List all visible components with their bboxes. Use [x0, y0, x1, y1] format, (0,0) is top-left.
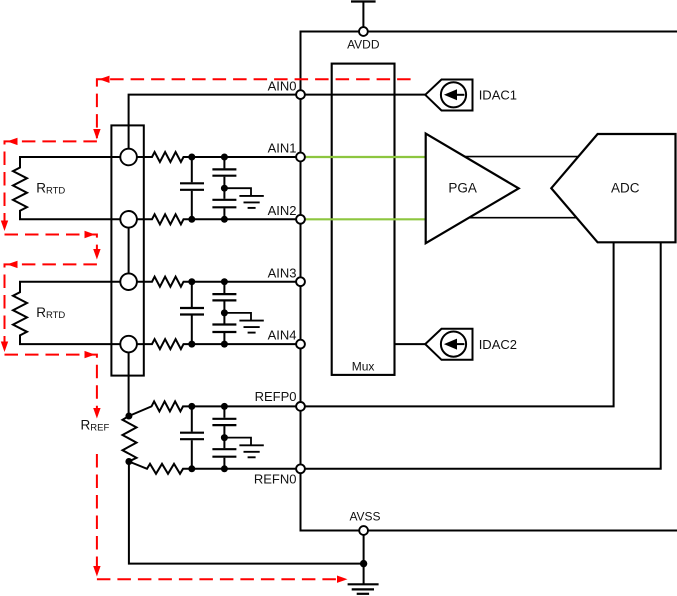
node AIN4-C6: [221, 341, 228, 348]
svg-text:IDAC1: IDAC1: [479, 88, 517, 103]
op-amp PGA U3: [426, 134, 519, 244]
wire red path: out of RTD2 toward R_REF: [5, 355, 97, 415]
supply rail bar AVDD: [351, 0, 376, 2]
node AIN2-C3: [221, 216, 228, 223]
svg-text:PGA: PGA: [448, 180, 477, 195]
capacitor C3 AIN2 to GND: [223, 188, 225, 199]
ADC core block U4: [551, 134, 675, 242]
wire red path: into RTD1: [5, 141, 97, 227]
pin AVDD: [359, 27, 368, 36]
chip pin circles: [296, 27, 368, 535]
wire green signal AIN1 to PGA: [305, 156, 426, 158]
current source IDAC1: [425, 80, 472, 111]
wire AVDD supply stem: [362, 2, 364, 28]
wire red path: IDAC1 out of AIN0 to connector: [97, 79, 411, 138]
wire AIN2 row with series filter resistor: [137, 214, 297, 224]
wire red path: through R_REF to ground: [96, 454, 98, 576]
pin AIN2: [296, 215, 305, 224]
capacitor C6 AIN4 to GND: [223, 313, 225, 324]
arrow right (out of RTD2): [85, 351, 96, 358]
capacitor group AIN1/AIN2 filter: [180, 157, 264, 219]
terminal 2: [120, 211, 137, 228]
node C8-C9 midpoint: [221, 434, 228, 441]
svg-text:AIN1: AIN1: [268, 141, 297, 156]
terminal 3: [120, 273, 137, 290]
wire REFP0 row with series filter resistor: [129, 401, 297, 416]
svg-text:AIN2: AIN2: [268, 203, 297, 218]
node REFN0-C7: [188, 465, 195, 472]
svg-text:Mux: Mux: [352, 359, 375, 373]
capacitor C9 REFN0 to GND: [223, 438, 225, 449]
connector terminal circles: [120, 149, 137, 353]
capacitor C1 differential AIN1-AIN2: [191, 157, 193, 182]
capacitor C4 differential AIN3-AIN4: [191, 282, 193, 307]
arrow down (bottom corner): [93, 566, 100, 577]
node AIN4-C4: [188, 341, 195, 348]
wire red path: into RTD2: [5, 264, 97, 350]
pin AIN0: [296, 90, 305, 99]
connector J1 terminal block: [111, 125, 143, 375]
svg-text:REFP0: REFP0: [255, 389, 297, 404]
wire red path: final leg to AVSS ground: [97, 578, 344, 580]
wire connector terminal4 to R_REF: [128, 352, 130, 416]
red dashed IDAC current path: [5, 79, 411, 579]
node REFN0-C9: [221, 465, 228, 472]
svg-text:AIN3: AIN3: [268, 265, 297, 280]
arrow left (into RTD1): [7, 138, 18, 145]
node AIN1-C2: [221, 154, 228, 161]
node C2-C3 midpoint: [221, 185, 228, 192]
wire AIN1 row with series filter resistor: [137, 152, 297, 162]
node AIN3-C5: [221, 278, 228, 285]
current source IDAC2: [425, 329, 472, 360]
chip boundary (ADC device outline): [301, 32, 677, 531]
wire red path: out of RTD1 into link: [5, 235, 97, 256]
pin AIN4: [296, 340, 305, 349]
node C5-C6 midpoint: [221, 309, 228, 316]
svg-text:AVSS: AVSS: [349, 510, 380, 524]
svg-text:RRTD: RRTD: [36, 305, 65, 321]
arrow down (into R_REF): [93, 408, 100, 419]
svg-text:AIN0: AIN0: [268, 78, 297, 93]
node R_REF bottom: [125, 458, 132, 465]
ground (filter group 3): [224, 438, 251, 445]
arrow down (at connector entry): [93, 129, 100, 140]
wire REFN0 to ADC: [301, 243, 661, 469]
node AIN3-C4: [188, 278, 195, 285]
arrow down (through RTD1): [1, 221, 8, 232]
ground (AVSS earth symbol): [348, 584, 379, 594]
resistor R_REF (reference resistor): [123, 416, 137, 462]
wire PGA output to ADC (upper): [455, 156, 582, 158]
capacitor C8 REFP0 to GND: [223, 406, 225, 417]
svg-text:ADC: ADC: [611, 180, 640, 195]
pin REFP0: [296, 402, 305, 411]
node R_REF top: [125, 413, 132, 420]
wire AIN4 row with series filter resistor: [137, 339, 297, 349]
svg-text:REFN0: REFN0: [254, 471, 297, 486]
node AVSS ground junction: [360, 560, 367, 567]
capacitor group AIN3/AIN4 filter: [180, 282, 264, 344]
capacitor group REFP0/REFN0 filter: [180, 406, 264, 468]
wire PGA output to ADC (lower): [458, 217, 582, 219]
wire IDAC2 to mux: [395, 343, 426, 345]
wire AIN0 net (AIN0 pin to IDAC1 and to connector pin 1): [129, 95, 426, 149]
arrow left (into RTD2): [7, 261, 18, 268]
wire REFN0 row with series filter resistor: [129, 462, 297, 474]
terminal 4: [120, 336, 137, 353]
pin AIN3: [296, 277, 305, 286]
wire green signal AIN2 to PGA: [305, 218, 426, 220]
resistor R_RTD (top RTD sensor): [13, 157, 120, 219]
node AIN2-C1: [188, 216, 195, 223]
capacitor C2 AIN1 to GND: [223, 157, 225, 168]
arrow down (link to RTD2): [93, 249, 100, 260]
pin AVSS: [359, 526, 368, 535]
pin AIN1: [296, 153, 305, 162]
resistor R_RTD (bottom RTD sensor): [13, 282, 120, 344]
wire REFP0 to ADC: [301, 243, 614, 406]
svg-text:IDAC2: IDAC2: [479, 337, 517, 352]
node REFP0-C7: [188, 403, 195, 410]
ground (filter group 2): [224, 313, 251, 320]
capacitor C7 differential REFP0-REFN0: [191, 406, 193, 431]
arrow left (top corner): [99, 76, 110, 83]
arrow down (through RTD2): [1, 342, 8, 353]
svg-text:AVDD: AVDD: [347, 37, 380, 51]
node junction dots: [125, 154, 367, 568]
arrow right (into AVSS ground): [337, 576, 348, 583]
red path arrowheads: [1, 76, 348, 583]
wire R_REF bottom return to AVSS ground: [129, 462, 364, 564]
svg-text:RRTD: RRTD: [36, 181, 65, 197]
wire AVSS pin to ground: [363, 531, 365, 585]
node REFP0-C8: [221, 403, 228, 410]
ground (filter group 1): [224, 188, 251, 195]
node AIN1-C1: [188, 154, 195, 161]
pin REFN0: [296, 464, 305, 473]
wire AIN3 row with series filter resistor: [137, 277, 297, 287]
terminal 1: [120, 149, 137, 166]
svg-text:AIN4: AIN4: [268, 328, 297, 343]
svg-text:RREF: RREF: [81, 418, 110, 434]
mux U2 multiplexer block: [332, 64, 395, 375]
wire connector link terminal2 to terminal3: [128, 228, 130, 274]
arrow right (out of RTD1): [85, 231, 96, 238]
capacitor C5 AIN3 to GND: [223, 282, 225, 293]
